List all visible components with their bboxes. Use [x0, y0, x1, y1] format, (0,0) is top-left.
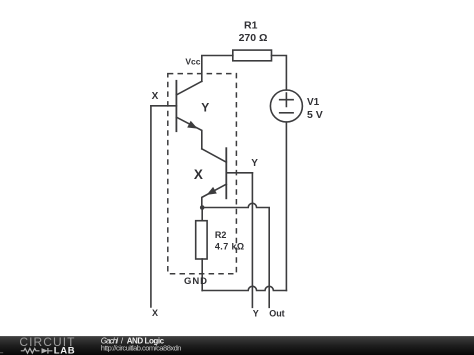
svg-text:X: X: [152, 308, 158, 318]
svg-text:R1: R1: [244, 20, 258, 32]
svg-text:X: X: [152, 91, 159, 102]
svg-text:5 V: 5 V: [307, 109, 323, 121]
svg-text:Out: Out: [269, 308, 285, 318]
svg-text:R2: R2: [215, 230, 227, 240]
svg-text:Y: Y: [253, 308, 259, 318]
svg-text:X: X: [194, 167, 203, 182]
svg-text:http://circuitlab.com/ca88xdn: http://circuitlab.com/ca88xdn: [101, 344, 182, 353]
svg-text:V1: V1: [307, 97, 320, 108]
svg-text:GND: GND: [184, 276, 207, 287]
svg-text:Vcc: Vcc: [185, 57, 200, 67]
svg-text:270 Ω: 270 Ω: [239, 32, 268, 44]
svg-text:Y: Y: [201, 101, 209, 115]
svg-text:4.7 kΩ: 4.7 kΩ: [215, 242, 244, 252]
svg-text:LAB: LAB: [54, 345, 76, 355]
svg-text:Y: Y: [251, 158, 258, 169]
